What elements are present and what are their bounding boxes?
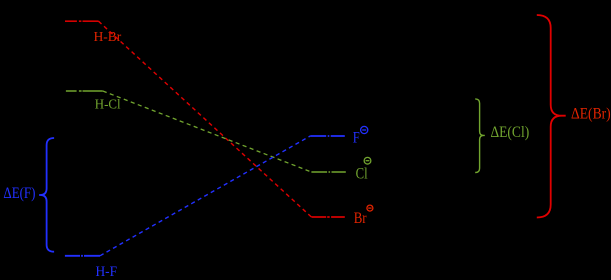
level H-Br (red, dash-dot) <box>65 20 99 22</box>
charge symbol Cl minus <box>364 157 371 164</box>
svg-text:H-Br: H-Br <box>94 30 122 45</box>
svg-text:Br: Br <box>354 208 367 227</box>
charge symbol Br minus <box>367 205 373 211</box>
level Br anion (red, dash-dot) <box>311 216 344 218</box>
level H-F (blue, dash-dot) <box>65 255 100 257</box>
svg-text:ΔE(Cl): ΔE(Cl) <box>491 124 530 141</box>
svg-text:H-Cl: H-Cl <box>95 97 121 112</box>
level F anion (blue, dash-dot) <box>310 135 345 137</box>
level Cl anion (green, dash-dot) <box>311 171 345 173</box>
wire connector H-Br to Br (red dashed) <box>99 21 312 217</box>
level H-Cl (green, dash-dot) <box>66 90 103 92</box>
svg-text:Cl: Cl <box>356 165 368 183</box>
wire connector H-Cl to Cl (green dashed) <box>103 91 312 172</box>
charge symbol F minus <box>361 126 368 133</box>
brace ΔE(Br) (red, right brace) <box>537 15 566 218</box>
svg-text:H-F: H-F <box>96 264 118 280</box>
svg-text:ΔE(F): ΔE(F) <box>3 185 35 202</box>
brace ΔE(F) (blue, left brace) <box>39 138 54 252</box>
svg-text:F: F <box>353 130 360 147</box>
wire connector H-F to F (blue dashed) <box>100 136 310 256</box>
svg-text:ΔE(Br): ΔE(Br) <box>571 106 611 123</box>
brace ΔE(Cl) (green, right brace) <box>475 99 485 173</box>
